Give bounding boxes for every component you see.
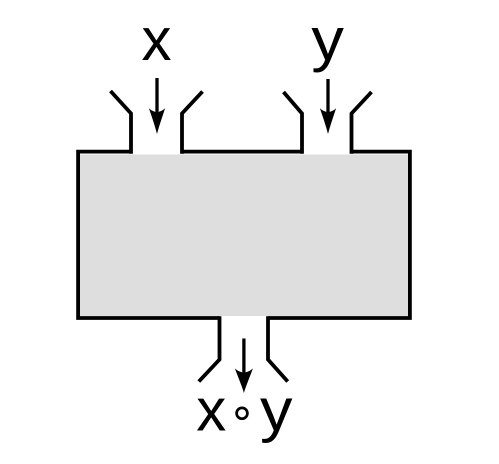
svg-text:y: y — [260, 377, 293, 444]
left input funnel, right wall — [182, 92, 203, 154]
right input funnel, left wall — [284, 92, 303, 154]
arrow into left funnel (input x) — [149, 78, 165, 134]
arrow into right funnel (input y) — [320, 79, 336, 134]
bottom output funnel, left wall — [199, 316, 220, 381]
svg-text:x: x — [196, 377, 226, 444]
output label: ring operator ∘ — [237, 408, 248, 419]
svg-text:x: x — [142, 6, 172, 73]
right input funnel, right wall — [352, 92, 372, 154]
arrow out of bottom funnel (output) — [235, 339, 253, 394]
box border (with gaps at the three funnel openings) — [78, 152, 410, 318]
svg-text:y: y — [311, 6, 344, 73]
box fill (operation machine body) — [80, 155, 408, 317]
left input funnel, left wall — [111, 91, 132, 154]
bottom output funnel, right wall — [268, 316, 288, 381]
